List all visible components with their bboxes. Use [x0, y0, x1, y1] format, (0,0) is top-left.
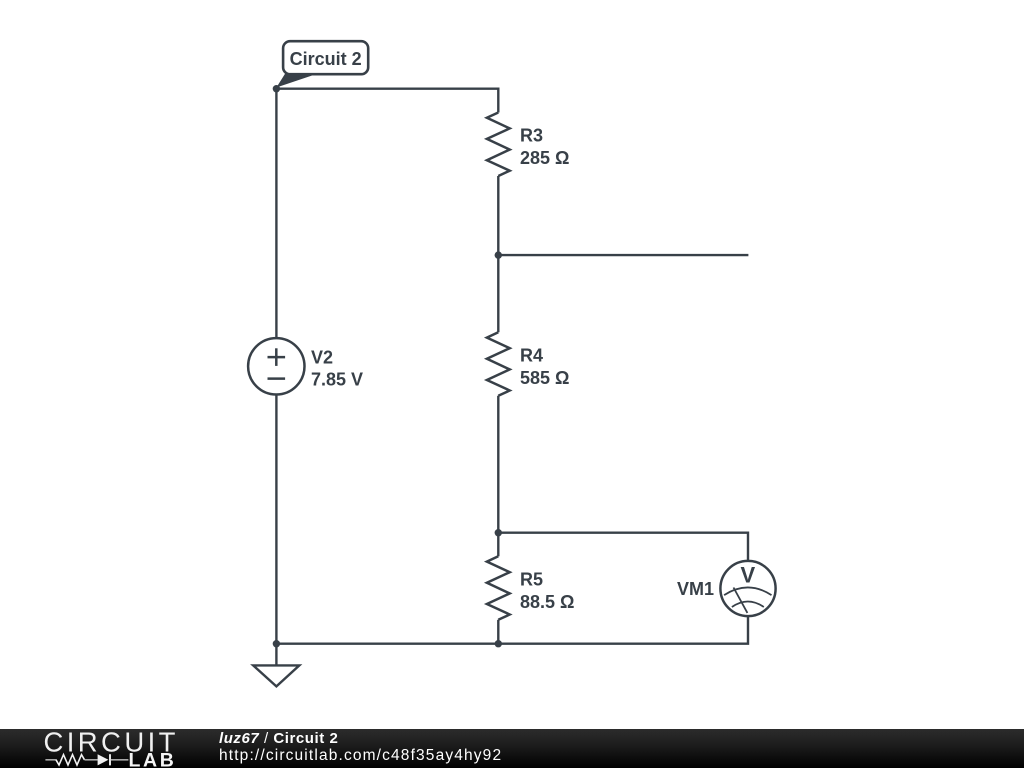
- wire R4 bottom to node C: [497, 396, 499, 533]
- node A dot: [273, 85, 280, 92]
- svg-text:88.5 Ω: 88.5 Ω: [520, 592, 574, 612]
- svg-text:LAB: LAB: [129, 749, 177, 768]
- wire node C to voltmeter top: [498, 533, 748, 561]
- wire left vertical upper (node A to V2 top): [275, 89, 277, 339]
- svg-text:R3: R3: [520, 126, 543, 146]
- svg-text:285 Ω: 285 Ω: [520, 148, 569, 168]
- node E dot (ground rail mid): [495, 640, 502, 647]
- voltmeter VM1: [720, 561, 775, 616]
- wire R5 bottom to ground rail: [497, 620, 499, 644]
- svg-text:585 Ω: 585 Ω: [520, 368, 569, 388]
- node B dot: [495, 251, 502, 258]
- svg-text:R4: R4: [520, 345, 543, 365]
- svg-text:V: V: [741, 563, 756, 588]
- svg-text:Circuit 2: Circuit 2: [290, 49, 362, 69]
- wire voltmeter bottom to ground rail: [276, 616, 748, 644]
- wire R3 bottom to R4 top: [497, 176, 499, 332]
- footer bar: [0, 729, 1024, 768]
- logo CIRCUIT LAB: [0, 729, 200, 768]
- annotation Circuit 2 label box: [283, 41, 368, 74]
- svg-text:7.85 V: 7.85 V: [311, 369, 363, 389]
- svg-text:VM1: VM1: [677, 579, 714, 599]
- wire node C to R5 top: [497, 533, 499, 557]
- node C dot: [495, 529, 502, 536]
- svg-text:V2: V2: [311, 347, 333, 367]
- wire stub node B to the right: [498, 254, 748, 256]
- annotation Circuit 2 callout pointer: [276, 74, 318, 88]
- ground: [253, 665, 299, 686]
- resistor R5: [487, 556, 510, 620]
- resistor R3: [487, 113, 510, 177]
- wire right vertical top (corner to R3): [497, 88, 499, 113]
- node D dot (ground rail left): [273, 640, 280, 647]
- wire ground stub: [275, 644, 277, 666]
- resistor R4: [487, 332, 510, 396]
- wire left vertical lower (V2 bottom to ground rail): [275, 394, 277, 643]
- wire top horizontal: [276, 87, 498, 89]
- footer text: [219, 731, 338, 746]
- voltage source V2: [248, 338, 304, 394]
- svg-text:R5: R5: [520, 569, 543, 589]
